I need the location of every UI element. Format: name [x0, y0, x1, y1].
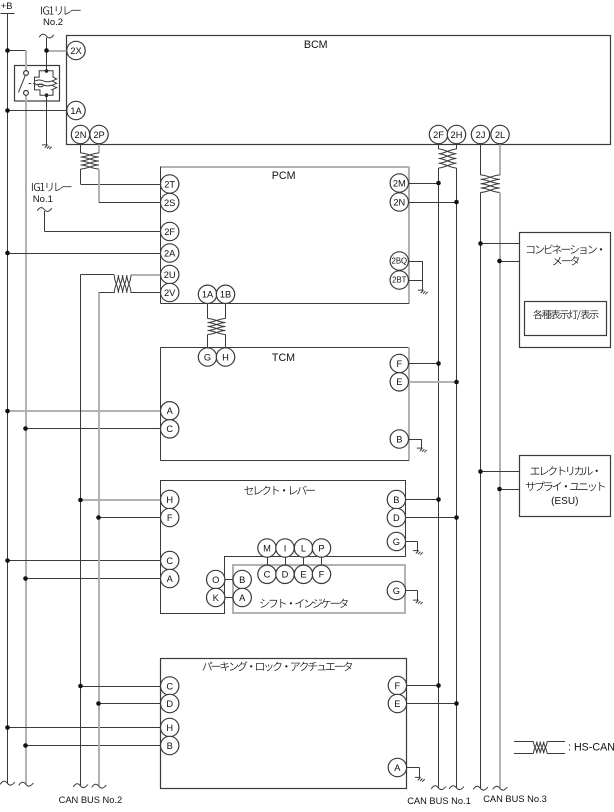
svg-text:2A: 2A: [164, 248, 176, 258]
svg-text:F: F: [167, 513, 173, 523]
svg-text:G: G: [393, 586, 400, 596]
svg-text:(ESU): (ESU): [551, 496, 578, 507]
svg-text:+B: +B: [1, 1, 13, 11]
svg-text:H: H: [166, 495, 173, 505]
svg-text:C: C: [264, 570, 271, 580]
svg-text:No.2: No.2: [43, 17, 63, 28]
svg-text:2H: 2H: [451, 130, 463, 140]
svg-text:P: P: [318, 543, 324, 553]
svg-text:D: D: [393, 513, 400, 523]
svg-text:G: G: [393, 537, 400, 547]
svg-text:1A: 1A: [70, 106, 82, 116]
svg-text:BCM: BCM: [304, 39, 328, 51]
svg-text:No.1: No.1: [33, 194, 53, 205]
svg-text:2F: 2F: [433, 130, 444, 140]
svg-text:CAN BUS No.3: CAN BUS No.3: [483, 794, 547, 804]
svg-text:TCM: TCM: [272, 352, 295, 364]
svg-text:1A: 1A: [202, 290, 214, 300]
svg-text:2BQ: 2BQ: [391, 257, 407, 266]
svg-text:C: C: [166, 424, 173, 434]
svg-text:A: A: [167, 574, 174, 584]
svg-text:2S: 2S: [164, 198, 175, 208]
svg-text:B: B: [239, 575, 245, 585]
svg-text:B: B: [396, 434, 402, 444]
svg-text:2M: 2M: [393, 178, 406, 188]
svg-text:A: A: [167, 406, 174, 416]
svg-text:H: H: [222, 352, 229, 362]
svg-text:2N: 2N: [75, 130, 87, 140]
svg-text:M: M: [263, 543, 271, 553]
svg-text:A: A: [239, 593, 246, 603]
svg-text:2L: 2L: [495, 130, 505, 140]
svg-text:L: L: [301, 543, 306, 553]
svg-text:B: B: [393, 495, 399, 505]
svg-text:E: E: [300, 570, 306, 580]
svg-text:F: F: [319, 570, 325, 580]
svg-text:2J: 2J: [476, 130, 486, 140]
svg-text:C: C: [166, 556, 173, 566]
svg-text:K: K: [213, 593, 220, 603]
svg-text:D: D: [166, 699, 173, 709]
svg-text:F: F: [395, 681, 401, 691]
svg-text:CAN BUS No.1: CAN BUS No.1: [407, 796, 471, 806]
svg-text:F: F: [396, 359, 402, 369]
svg-text:E: E: [394, 699, 400, 709]
svg-text:2P: 2P: [93, 130, 104, 140]
svg-text:2X: 2X: [70, 46, 81, 56]
svg-text:C: C: [166, 681, 173, 691]
svg-text:H: H: [166, 723, 173, 733]
svg-text:O: O: [212, 575, 219, 585]
svg-text:A: A: [394, 763, 401, 773]
svg-text:E: E: [396, 377, 402, 387]
svg-text:PCM: PCM: [272, 170, 296, 182]
svg-text:2N: 2N: [393, 197, 405, 207]
svg-text:D: D: [282, 570, 289, 580]
svg-text:2BT: 2BT: [392, 276, 407, 285]
svg-text:I: I: [284, 543, 287, 553]
svg-text:: HS-CAN: : HS-CAN: [568, 742, 614, 754]
svg-text:2U: 2U: [164, 270, 176, 280]
svg-text:CAN BUS No.2: CAN BUS No.2: [59, 795, 123, 805]
svg-text:1B: 1B: [220, 290, 231, 300]
svg-text:2F: 2F: [164, 227, 175, 237]
svg-text:B: B: [167, 741, 173, 751]
svg-text:2V: 2V: [164, 288, 176, 298]
svg-text:G: G: [204, 352, 211, 362]
svg-text:2T: 2T: [164, 179, 175, 189]
